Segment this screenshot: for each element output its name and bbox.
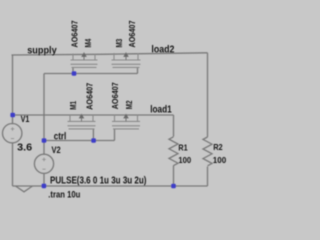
svg-text:AO6407: AO6407 [70,20,80,47]
svg-text:100: 100 [178,155,191,165]
svg-text:R1: R1 [178,142,187,152]
svg-text:M1: M1 [68,101,78,110]
svg-text:ctrl: ctrl [54,132,67,143]
svg-text:.tran 10u: .tran 10u [48,189,80,199]
svg-text:V2: V2 [52,145,61,155]
svg-text:R2: R2 [213,142,223,152]
svg-text:supply: supply [27,45,57,56]
svg-text:M3: M3 [114,38,124,47]
svg-text:100: 100 [213,155,227,165]
svg-text:M4: M4 [83,38,93,47]
svg-text:3.6: 3.6 [17,143,33,154]
svg-text:load1: load1 [150,104,172,115]
svg-text:AO6407: AO6407 [110,82,120,109]
svg-text:AO6407: AO6407 [84,82,94,109]
svg-text:M2: M2 [124,100,134,109]
svg-text:PULSE(3.6 0 1u 3u 3u 2u): PULSE(3.6 0 1u 3u 3u 2u) [50,175,147,186]
svg-text:AO6407: AO6407 [127,20,137,47]
svg-text:V1: V1 [21,114,30,124]
svg-text:load2: load2 [151,44,174,55]
